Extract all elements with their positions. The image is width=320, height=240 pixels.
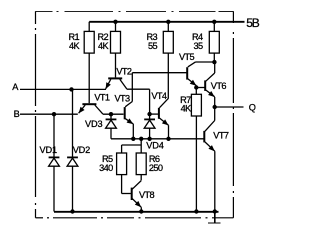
svg-text:250: 250	[149, 163, 163, 173]
svg-text:VT3: VT3	[115, 94, 131, 104]
svg-text:5B: 5B	[246, 16, 259, 30]
svg-text:VT1: VT1	[94, 93, 110, 103]
svg-text:4K: 4K	[69, 41, 81, 51]
svg-text:B: B	[14, 109, 20, 119]
svg-text:340: 340	[99, 163, 113, 173]
svg-text:Q: Q	[249, 102, 256, 112]
svg-text:35: 35	[193, 41, 203, 51]
svg-text:VD3: VD3	[85, 119, 102, 129]
svg-text:VD2: VD2	[73, 145, 90, 155]
svg-text:55: 55	[148, 41, 158, 51]
svg-text:VT5: VT5	[179, 52, 195, 62]
svg-text:4K: 4K	[181, 103, 193, 113]
svg-text:VD4: VD4	[146, 141, 163, 151]
svg-text:VT7: VT7	[213, 131, 229, 141]
svg-text:VD1: VD1	[40, 145, 57, 155]
svg-text:VT8: VT8	[139, 190, 155, 200]
svg-text:VT2: VT2	[116, 66, 132, 76]
svg-text:VT6: VT6	[211, 81, 227, 91]
svg-text:VT4: VT4	[151, 91, 167, 101]
svg-text:4K: 4K	[98, 41, 110, 51]
